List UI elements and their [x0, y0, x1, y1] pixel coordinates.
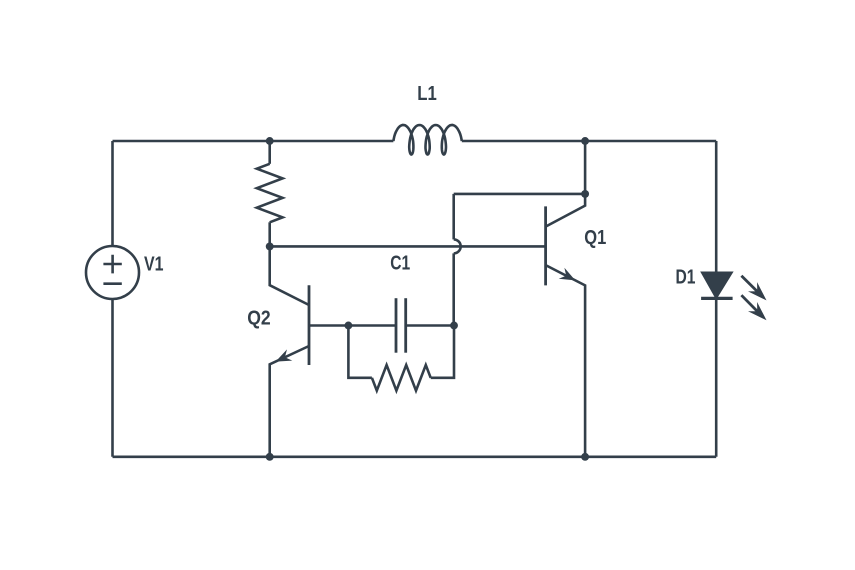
resistor R1: [257, 164, 283, 223]
Q1 base bar: [544, 206, 547, 285]
wire left rail lower: [111, 299, 114, 457]
wire right rail upper: [715, 141, 718, 273]
Q2 base bar: [308, 285, 311, 365]
node dot C1 left: [344, 322, 352, 330]
wire right rail lower: [715, 298, 718, 456]
Q2 collector lead: [270, 246, 309, 305]
svg-text:Q2: Q2: [247, 307, 271, 329]
wire vertical C1-right to collector node, upper: [452, 194, 455, 240]
Q2 base lead: [309, 324, 348, 327]
node dot top rail / R1: [266, 137, 274, 145]
wire top rail left segment: [113, 140, 394, 143]
node dot collector net: [581, 190, 589, 198]
transistor Q2: [270, 246, 349, 456]
svg-text:D1: D1: [676, 267, 696, 289]
svg-text:V1: V1: [144, 254, 164, 276]
wire Q1 collector node horizontal: [454, 193, 585, 196]
wire R2 right lead: [431, 326, 454, 378]
wire C1 right lead: [406, 324, 454, 327]
wire bottom rail: [113, 455, 717, 458]
voltage source V1: [86, 246, 139, 299]
transistor Q1: [546, 141, 586, 457]
LED D1: [701, 273, 766, 321]
wire R1 bottom lead: [268, 222, 271, 246]
svg-text:C1: C1: [390, 253, 410, 275]
wire vertical C1-right, lower: [452, 253, 455, 325]
R2 zigzag: [372, 365, 431, 391]
svg-text:L1: L1: [417, 83, 437, 105]
wire left rail upper: [111, 141, 114, 246]
resistor R2: [348, 326, 454, 391]
D1 light arrow 1: [741, 276, 766, 301]
D1 triangle: [702, 273, 731, 298]
Q2 emitter lead: [270, 346, 309, 457]
node dot R1 bottom: [266, 242, 274, 250]
V1 minus sign: [103, 282, 121, 285]
node dot bottom rail Q2: [266, 453, 274, 461]
Q1 emitter arrow: [559, 268, 576, 281]
D1 cathode bar: [701, 297, 733, 300]
V1 plus sign: [103, 255, 121, 274]
node dot C1 right: [450, 322, 458, 330]
inductor L1: [393, 125, 461, 155]
wire R2 left lead: [348, 326, 372, 378]
wire hop over base net: [454, 239, 461, 253]
wire base net horizontal (node to Q1 base): [270, 245, 546, 248]
D1 light arrow 2: [741, 295, 766, 320]
svg-text:Q1: Q1: [584, 227, 606, 249]
C1 right plate: [404, 298, 407, 353]
Q1 emitter lead: [546, 265, 586, 457]
capacitor C1: [348, 298, 454, 353]
Q1 collector lead: [546, 141, 586, 227]
C1 left plate: [395, 298, 398, 353]
node dot bottom rail Q1: [581, 453, 589, 461]
V1 circle: [86, 246, 139, 299]
Q2 emitter arrow: [276, 349, 293, 361]
wire R1 top lead: [268, 141, 271, 164]
node dot top rail / Q1 collector: [581, 137, 589, 145]
wire C1 left lead: [348, 324, 396, 327]
wire top rail right segment: [462, 140, 716, 143]
